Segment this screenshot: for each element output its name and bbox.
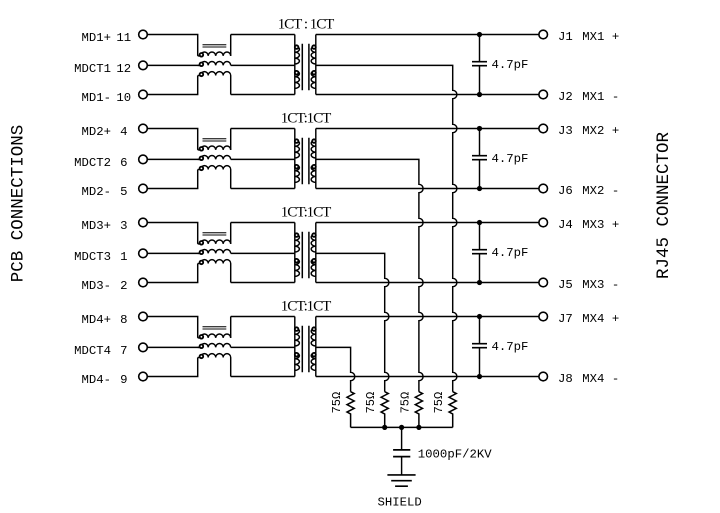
wire T3 secondary top to J4 bbox=[316, 222, 539, 224]
wire T2 secondary centre tap drop to 75&#937; resistor (with wire hops) bbox=[316, 159, 423, 391]
common-mode choke CM1 bbox=[198, 35, 231, 95]
wire MD4+ to choke bbox=[147, 317, 197, 338]
svg-text:1CT : 1CT: 1CT : 1CT bbox=[278, 17, 334, 33]
pin J6 MX2 - bbox=[539, 184, 548, 193]
wire T4 secondary bottom to J8 bbox=[316, 376, 539, 378]
wire choke CM4 to T4 (top) bbox=[231, 316, 295, 318]
svg-text:MDCT2: MDCT2 bbox=[74, 156, 111, 170]
wire MD4- to choke bbox=[147, 358, 197, 377]
svg-text:1CT:1CT: 1CT:1CT bbox=[281, 299, 331, 315]
svg-text:8: 8 bbox=[120, 313, 127, 327]
junction dot C2 bottom bbox=[477, 186, 482, 191]
wire choke CM2 to T2 (bottom) bbox=[231, 188, 295, 190]
pin J1 MX1 + bbox=[539, 30, 548, 39]
svg-text:MDCT3: MDCT3 bbox=[74, 250, 111, 264]
wire T4 secondary centre tap drop to 75&#937; resistor (with wire hops) bbox=[316, 347, 355, 391]
transformer T1 (1CT:1CT) bbox=[295, 35, 316, 95]
wire MD1+ to choke bbox=[147, 35, 197, 56]
svg-text:6: 6 bbox=[120, 156, 127, 170]
junction dot bus / R2 bbox=[382, 425, 387, 430]
svg-text:MX2 +: MX2 + bbox=[582, 124, 619, 138]
pin MD2+ (pad 4) bbox=[139, 124, 148, 133]
junction dot bus / C5 bbox=[399, 425, 404, 430]
wire choke CM2 to T2 primary centre tap bbox=[231, 158, 295, 160]
polarity dots CM1 bbox=[200, 53, 204, 76]
resistor R4 75&#937; bbox=[449, 392, 456, 428]
svg-text:MD4+: MD4+ bbox=[81, 313, 111, 327]
pin MDCT1 (pad 12) bbox=[139, 61, 148, 70]
junction dot bus / R3 bbox=[416, 425, 421, 430]
svg-text:PCB CONNECTIONS: PCB CONNECTIONS bbox=[9, 125, 29, 283]
pin J2 MX1 - bbox=[539, 90, 548, 99]
svg-text:1: 1 bbox=[120, 250, 127, 264]
pin MD3+ (pad 3) bbox=[139, 218, 148, 227]
svg-text:MX4 -: MX4 - bbox=[582, 372, 619, 386]
wire T3 secondary centre tap drop to 75&#937; resistor (with wire hops) bbox=[316, 253, 389, 391]
svg-text:MDCT4: MDCT4 bbox=[74, 344, 111, 358]
pin MD1+ (pad 11) bbox=[139, 30, 148, 39]
wire choke CM4 to T4 primary centre tap bbox=[231, 346, 295, 348]
pin J8 MX4 - bbox=[539, 372, 548, 381]
svg-text:RJ45 CONNECTOR: RJ45 CONNECTOR bbox=[654, 131, 674, 279]
svg-text:MX1 -: MX1 - bbox=[582, 90, 619, 104]
wire choke CM1 to T1 primary centre tap bbox=[231, 64, 295, 66]
polarity dots T2 bbox=[295, 139, 316, 168]
wire choke CM1 to T1 (top) bbox=[231, 34, 295, 36]
polarity dots CM3 bbox=[200, 241, 204, 264]
pin MD2- (pad 5) bbox=[139, 184, 148, 193]
common-mode choke CM2 bbox=[198, 129, 231, 189]
pin MD1- (pad 10) bbox=[139, 90, 148, 99]
svg-text:MD4-: MD4- bbox=[81, 373, 111, 387]
wire T1 secondary bottom to J2 bbox=[316, 94, 539, 96]
svg-text:4.7pF: 4.7pF bbox=[492, 58, 529, 72]
common-mode choke CM3 bbox=[198, 223, 231, 283]
polarity dots T4 bbox=[295, 327, 316, 356]
svg-text:J5: J5 bbox=[558, 278, 573, 292]
wire MD2- to choke bbox=[147, 170, 197, 189]
junction dot C3 top bbox=[477, 220, 482, 225]
wire choke CM1 to T1 (bottom) bbox=[231, 94, 295, 96]
svg-text:MX1 +: MX1 + bbox=[582, 30, 619, 44]
svg-text:1000pF/2KV: 1000pF/2KV bbox=[418, 448, 492, 462]
capacitor C3 4.7pF bbox=[472, 223, 487, 283]
pin MDCT4 (pad 7) bbox=[139, 343, 148, 352]
wire MDCT4 to choke centre winding bbox=[147, 346, 200, 348]
svg-text:5: 5 bbox=[120, 185, 127, 199]
wire choke CM3 to T3 (top) bbox=[231, 222, 295, 224]
svg-text:75Ω: 75Ω bbox=[398, 392, 412, 414]
svg-text:10: 10 bbox=[116, 91, 131, 105]
ground symbol (SHIELD) bbox=[387, 475, 415, 486]
svg-text:MD2+: MD2+ bbox=[81, 125, 111, 139]
svg-text:12: 12 bbox=[116, 62, 131, 76]
pin MD4- (pad 9) bbox=[139, 372, 148, 381]
wire T1 secondary top to J1 bbox=[316, 34, 539, 36]
svg-text:MD1-: MD1- bbox=[81, 91, 111, 105]
wire choke CM2 to T2 (top) bbox=[231, 128, 295, 130]
transformer T2 (1CT:1CT) bbox=[295, 129, 316, 189]
pin MDCT3 (pad 1) bbox=[139, 249, 148, 258]
resistor R1 75&#937; bbox=[347, 392, 354, 428]
svg-text:J6: J6 bbox=[558, 184, 573, 198]
pin MD3- (pad 2) bbox=[139, 278, 148, 287]
wire T2 secondary bottom to J6 bbox=[316, 188, 539, 190]
wire T1 secondary centre tap drop to 75&#937; resistor (with wire hops) bbox=[316, 65, 457, 391]
svg-text:SHIELD: SHIELD bbox=[378, 495, 422, 509]
svg-text:1CT:1CT: 1CT:1CT bbox=[281, 111, 331, 127]
wire T4 secondary top to J7 bbox=[316, 316, 539, 318]
svg-text:MD3+: MD3+ bbox=[81, 219, 111, 233]
wire MD2+ to choke bbox=[147, 129, 197, 150]
common-mode choke CM4 bbox=[198, 317, 231, 377]
svg-text:4.7pF: 4.7pF bbox=[492, 340, 529, 354]
pin J3 MX2 + bbox=[539, 124, 548, 133]
wire MD3+ to choke bbox=[147, 223, 197, 244]
junction dot C2 top bbox=[477, 126, 482, 131]
svg-text:MX2 -: MX2 - bbox=[582, 184, 619, 198]
svg-text:4: 4 bbox=[120, 125, 127, 139]
svg-text:75Ω: 75Ω bbox=[432, 392, 446, 414]
svg-text:4.7pF: 4.7pF bbox=[492, 246, 529, 260]
wire choke CM4 to T4 (bottom) bbox=[231, 376, 295, 378]
resistor R3 75&#937; bbox=[415, 392, 422, 428]
capacitor C2 4.7pF bbox=[472, 129, 487, 189]
svg-text:75Ω: 75Ω bbox=[364, 392, 378, 414]
svg-text:J3: J3 bbox=[558, 124, 573, 138]
svg-text:11: 11 bbox=[116, 31, 131, 45]
polarity dots T3 bbox=[295, 233, 316, 262]
svg-text:MD2-: MD2- bbox=[81, 185, 111, 199]
svg-text:MX3 +: MX3 + bbox=[582, 218, 619, 232]
polarity dots CM4 bbox=[200, 335, 204, 358]
svg-text:J1: J1 bbox=[558, 30, 573, 44]
svg-text:J2: J2 bbox=[558, 90, 573, 104]
wire T3 secondary bottom to J5 bbox=[316, 282, 539, 284]
wire MDCT3 to choke centre winding bbox=[147, 252, 200, 254]
junction dot C4 bottom bbox=[477, 374, 482, 379]
wire ground bus joining resistors bbox=[351, 426, 453, 428]
svg-text:J7: J7 bbox=[558, 312, 573, 326]
wire choke CM3 to T3 (bottom) bbox=[231, 282, 295, 284]
pin J4 MX3 + bbox=[539, 218, 548, 227]
junction dot C1 top bbox=[477, 32, 482, 37]
polarity dots T1 bbox=[295, 45, 316, 74]
svg-text:J4: J4 bbox=[558, 218, 573, 232]
wire MD3- to choke bbox=[147, 264, 197, 283]
pin MD4+ (pad 8) bbox=[139, 312, 148, 321]
wire choke CM3 to T3 primary centre tap bbox=[231, 252, 295, 254]
svg-text:9: 9 bbox=[120, 373, 127, 387]
pin J7 MX4 + bbox=[539, 312, 548, 321]
junction dot C1 bottom bbox=[477, 92, 482, 97]
svg-text:3: 3 bbox=[120, 219, 127, 233]
capacitor C1 4.7pF bbox=[472, 35, 487, 95]
svg-text:MX3 -: MX3 - bbox=[582, 278, 619, 292]
svg-text:7: 7 bbox=[120, 344, 127, 358]
capacitor C5 1000pF/2KV bbox=[393, 427, 410, 475]
svg-text:2: 2 bbox=[120, 279, 127, 293]
junction dot C3 bottom bbox=[477, 280, 482, 285]
svg-text:MD1+: MD1+ bbox=[81, 31, 111, 45]
svg-text:1CT:1CT: 1CT:1CT bbox=[281, 205, 331, 221]
transformer T4 (1CT:1CT) bbox=[295, 317, 316, 377]
resistor R2 75&#937; bbox=[381, 392, 388, 428]
wire MDCT2 to choke centre winding bbox=[147, 158, 200, 160]
wire MDCT1 to choke centre winding bbox=[147, 64, 200, 66]
polarity dots CM2 bbox=[200, 147, 204, 170]
svg-text:MDCT1: MDCT1 bbox=[74, 62, 111, 76]
svg-text:4.7pF: 4.7pF bbox=[492, 152, 529, 166]
wire MD1- to choke bbox=[147, 76, 197, 95]
pin MDCT2 (pad 6) bbox=[139, 155, 148, 164]
transformer T3 (1CT:1CT) bbox=[295, 223, 316, 283]
junction dot C4 top bbox=[477, 314, 482, 319]
pin J5 MX3 - bbox=[539, 278, 548, 287]
wire T2 secondary top to J3 bbox=[316, 128, 539, 130]
capacitor C4 4.7pF bbox=[472, 317, 487, 377]
svg-text:MD3-: MD3- bbox=[81, 279, 111, 293]
svg-text:J8: J8 bbox=[558, 372, 573, 386]
svg-text:MX4 +: MX4 + bbox=[582, 312, 619, 326]
svg-text:75Ω: 75Ω bbox=[330, 392, 344, 414]
